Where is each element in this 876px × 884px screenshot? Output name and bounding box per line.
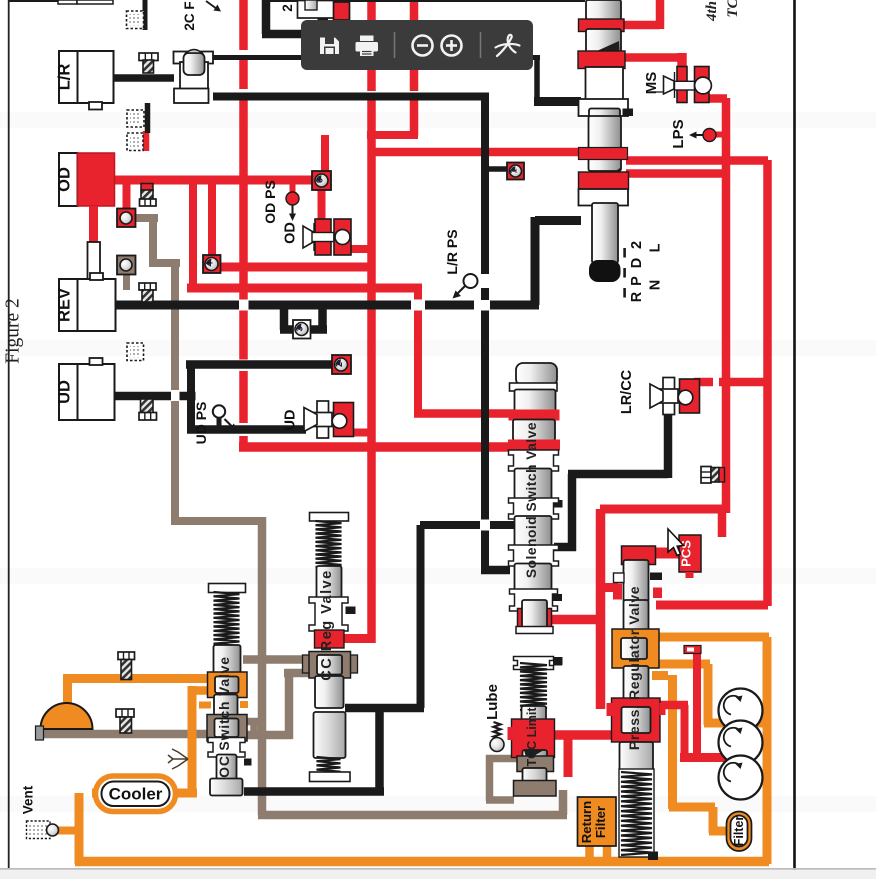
svg-text:LPS: LPS bbox=[670, 119, 687, 148]
svg-text:1: 1 bbox=[509, 168, 519, 173]
svg-text:OC Switch Valve: OC Switch Valve bbox=[216, 656, 232, 778]
svg-text:OD: OD bbox=[283, 222, 299, 244]
svg-text:Vent: Vent bbox=[21, 785, 36, 814]
svg-text:L: L bbox=[648, 243, 664, 252]
svg-text:Filter: Filter bbox=[593, 806, 608, 838]
svg-text:6: 6 bbox=[315, 178, 325, 183]
svg-text:4th: 4th bbox=[704, 1, 720, 22]
svg-text:UD PS: UD PS bbox=[193, 402, 209, 445]
svg-text:Cooler: Cooler bbox=[109, 785, 163, 804]
svg-text:2: 2 bbox=[334, 362, 344, 367]
svg-text:MS: MS bbox=[643, 72, 660, 95]
svg-text:N: N bbox=[648, 280, 664, 290]
svg-text:4: 4 bbox=[205, 261, 215, 266]
svg-text:UD: UD bbox=[283, 410, 299, 431]
svg-text:L/R PS: L/R PS bbox=[444, 229, 460, 274]
svg-text:Press. Regulator Valve: Press. Regulator Valve bbox=[626, 586, 642, 750]
svg-text:2: 2 bbox=[280, 4, 295, 12]
svg-text:Solenoid Switch Valve: Solenoid Switch Valve bbox=[524, 422, 539, 578]
svg-text:TC: TC bbox=[725, 0, 741, 18]
svg-text:L/R: L/R bbox=[56, 64, 74, 91]
svg-text:R: R bbox=[629, 291, 645, 302]
svg-text:Filter: Filter bbox=[732, 816, 746, 847]
svg-text:LR/CC: LR/CC bbox=[619, 369, 635, 414]
svg-text:OD: OD bbox=[56, 167, 74, 192]
svg-text:Lube: Lube bbox=[484, 684, 501, 720]
svg-text:3: 3 bbox=[295, 326, 305, 331]
svg-text:Figure 2: Figure 2 bbox=[3, 298, 24, 364]
svg-text:OD PS: OD PS bbox=[262, 180, 278, 224]
svg-text:REV: REV bbox=[56, 288, 74, 322]
svg-text:P: P bbox=[629, 276, 645, 286]
svg-text:TCC Limit: TCC Limit bbox=[525, 707, 539, 767]
svg-text:D: D bbox=[629, 258, 645, 268]
svg-text:UD: UD bbox=[56, 380, 74, 404]
svg-text:2: 2 bbox=[629, 241, 645, 249]
svg-text:CC Reg Valve: CC Reg Valve bbox=[319, 569, 335, 681]
svg-text:2C F: 2C F bbox=[182, 1, 197, 30]
svg-text:Return: Return bbox=[579, 801, 594, 844]
